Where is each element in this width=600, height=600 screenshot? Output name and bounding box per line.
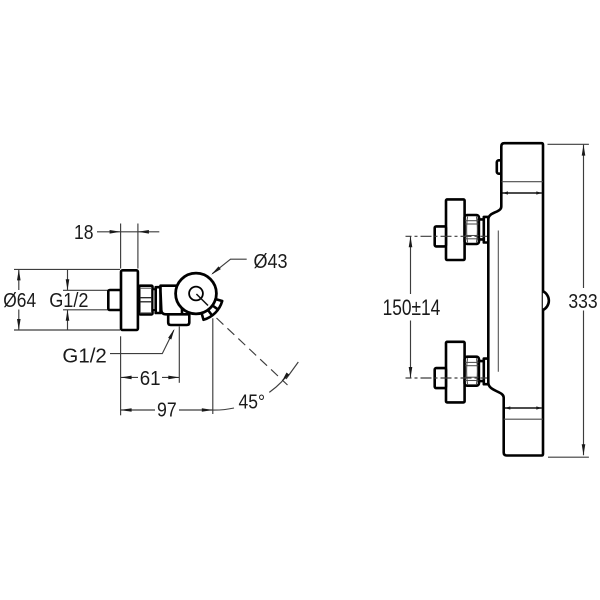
- svg-text:150±14: 150±14: [383, 295, 441, 320]
- svg-text:18: 18: [74, 222, 94, 244]
- svg-text:61: 61: [140, 368, 161, 390]
- svg-text:G1/2: G1/2: [62, 346, 106, 368]
- svg-text:45°: 45°: [239, 392, 266, 414]
- svg-text:G1/2: G1/2: [49, 290, 88, 312]
- svg-text:Ø43: Ø43: [254, 251, 288, 273]
- svg-text:333: 333: [568, 291, 597, 313]
- svg-text:Ø64: Ø64: [3, 290, 36, 312]
- svg-text:97: 97: [157, 400, 177, 422]
